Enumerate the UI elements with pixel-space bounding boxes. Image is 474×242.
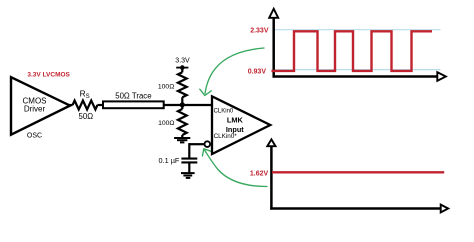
svg-text:50Ω Trace: 50Ω Trace <box>115 91 151 100</box>
svg-text:0.1 µF: 0.1 µF <box>159 156 180 165</box>
svg-text:1.62V: 1.62V <box>250 171 269 178</box>
svg-text:100Ω: 100Ω <box>158 120 174 127</box>
svg-text:Driver: Driver <box>24 105 46 114</box>
svg-text:CLKin0: CLKin0 <box>214 109 234 115</box>
svg-text:0.93V: 0.93V <box>248 69 267 76</box>
svg-text:100Ω: 100Ω <box>158 84 174 91</box>
svg-text:LMK: LMK <box>227 116 244 125</box>
svg-text:3.3V LVCMOS: 3.3V LVCMOS <box>27 72 70 79</box>
svg-text:CLKin0*: CLKin0* <box>214 133 238 140</box>
svg-text:2.33V: 2.33V <box>250 28 269 35</box>
svg-text:3.3V: 3.3V <box>175 57 190 64</box>
svg-text:50Ω: 50Ω <box>79 112 94 121</box>
svg-text:OSC: OSC <box>27 132 42 139</box>
